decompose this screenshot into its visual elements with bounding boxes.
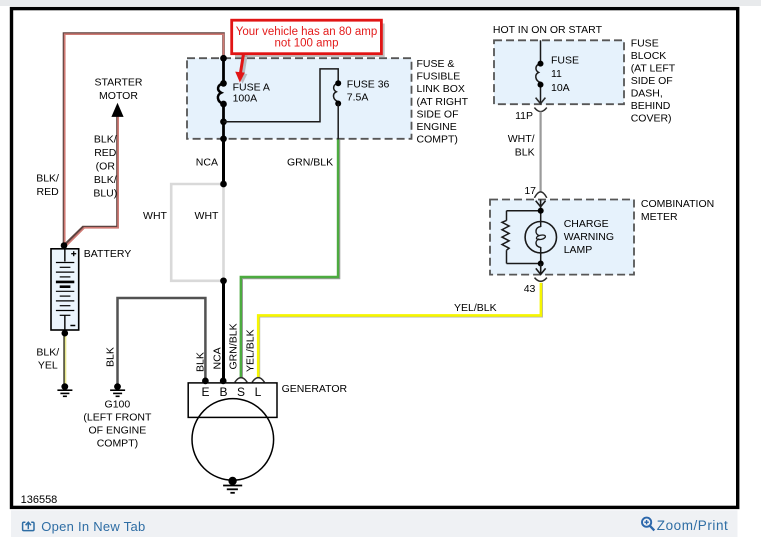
svg-text:BEHIND: BEHIND bbox=[631, 100, 671, 112]
junction dot fuse36 bottom bbox=[335, 101, 341, 107]
fuse 36 bbox=[333, 83, 338, 102]
svg-text:100A: 100A bbox=[233, 93, 258, 105]
svg-text:BLK/: BLK/ bbox=[36, 346, 59, 358]
svg-text:RED: RED bbox=[94, 147, 117, 159]
ground generator bbox=[223, 477, 242, 493]
annotation arrow bbox=[235, 54, 245, 83]
annotation box bbox=[232, 20, 382, 54]
svg-text:10A: 10A bbox=[551, 82, 570, 94]
junction dot WHT bottom bbox=[220, 277, 227, 284]
connector 17 arc bbox=[534, 192, 546, 198]
arrow into meter bbox=[536, 200, 546, 211]
terminal dot B bbox=[220, 378, 227, 385]
svg-text:GRN/BLK: GRN/BLK bbox=[228, 323, 240, 369]
connector S arc bbox=[235, 378, 247, 383]
wire BLK/YEL battery to ground dark half bbox=[63, 333, 65, 385]
svg-text:FUSE &: FUSE & bbox=[417, 58, 455, 70]
svg-text:FUSE 36: FUSE 36 bbox=[347, 78, 390, 90]
top gray strip bbox=[0, 0, 761, 6]
wire WHT vertical bbox=[222, 184, 225, 281]
wire BLK/RED(OR BLK/BLU) battery to starter motor bbox=[64, 112, 118, 246]
junction dot fuse36 top bbox=[335, 80, 341, 86]
svg-text:not 100 amp: not 100 amp bbox=[275, 38, 339, 50]
svg-text:COMBINATION: COMBINATION bbox=[641, 198, 714, 210]
wire fuse36 to box edge bbox=[337, 104, 339, 140]
magnifier icon bbox=[642, 518, 654, 531]
svg-text:HOT IN ON OR START: HOT IN ON OR START bbox=[493, 24, 603, 36]
svg-text:COMPT): COMPT) bbox=[97, 437, 138, 449]
junction dot fuse11 bottom bbox=[538, 82, 544, 88]
wire NCA to generator B bbox=[222, 281, 225, 381]
svg-text:BLK/: BLK/ bbox=[94, 134, 117, 146]
wire BLK/RED battery to fuse box bbox=[64, 34, 224, 246]
svg-text:E: E bbox=[201, 385, 209, 399]
svg-text:(AT LEFT: (AT LEFT bbox=[631, 62, 676, 74]
wire WHT/BLK 11P to 17 bbox=[539, 112, 541, 192]
connector L arc bbox=[252, 378, 264, 383]
svg-text:WHT: WHT bbox=[143, 210, 167, 222]
svg-text:WHT/: WHT/ bbox=[508, 133, 535, 145]
svg-text:COMPT): COMPT) bbox=[417, 133, 458, 145]
terminal letters E B S L bbox=[201, 385, 261, 399]
svg-text:GENERATOR: GENERATOR bbox=[282, 383, 348, 395]
fuse 11 chain bbox=[536, 40, 541, 103]
arrow out of meter bbox=[536, 264, 546, 275]
svg-text:METER: METER bbox=[641, 211, 678, 223]
annotation text bbox=[236, 26, 378, 50]
svg-text:S: S bbox=[237, 385, 245, 399]
svg-text:136558: 136558 bbox=[21, 494, 58, 506]
starter motor arrow bbox=[111, 103, 123, 117]
junction dot fuse box top bbox=[220, 55, 227, 62]
svg-text:(LEFT FRONT: (LEFT FRONT bbox=[83, 411, 152, 423]
ground battery bbox=[57, 383, 72, 396]
svg-text:17: 17 bbox=[524, 185, 536, 197]
svg-text:BLK: BLK bbox=[515, 146, 535, 158]
terminal dot E bbox=[202, 378, 209, 385]
battery - terminal dot bbox=[62, 330, 69, 337]
ground G100 bbox=[110, 383, 125, 396]
svg-text:SIDE OF: SIDE OF bbox=[631, 75, 673, 87]
svg-text:(AT RIGHT: (AT RIGHT bbox=[417, 96, 469, 108]
svg-text:RED: RED bbox=[37, 186, 60, 198]
wire GRN/BLK fuse36 to generator S bbox=[241, 140, 339, 378]
svg-text:BATTERY: BATTERY bbox=[84, 248, 131, 260]
svg-text:MOTOR: MOTOR bbox=[99, 90, 138, 102]
svg-text:BLK/: BLK/ bbox=[36, 172, 59, 184]
svg-text:7.5A: 7.5A bbox=[347, 92, 369, 104]
charge warning lamp bbox=[525, 211, 556, 264]
svg-text:Open In New Tab: Open In New Tab bbox=[41, 519, 145, 534]
svg-text:DASH,: DASH, bbox=[631, 88, 663, 100]
junction dot fuse11 top bbox=[538, 61, 544, 67]
connector 43 arc bbox=[535, 278, 547, 282]
bottom toolbar bbox=[11, 510, 738, 537]
junction dot fuse A top bbox=[220, 80, 227, 87]
svg-text:YEL: YEL bbox=[38, 360, 58, 372]
svg-text:ENGINE: ENGINE bbox=[417, 121, 457, 133]
battery bbox=[51, 249, 79, 330]
svg-text:LAMP: LAMP bbox=[564, 244, 593, 256]
svg-text:SIDE OF: SIDE OF bbox=[417, 108, 459, 120]
annotation shadow bbox=[235, 24, 385, 58]
generator circle bbox=[192, 399, 274, 481]
svg-text:OF ENGINE: OF ENGINE bbox=[89, 424, 147, 436]
junction dot fuse A bottom bbox=[220, 101, 227, 108]
svg-text:BLK: BLK bbox=[195, 352, 207, 372]
svg-text:BLOCK: BLOCK bbox=[631, 50, 667, 62]
wire WHT parallel loop bbox=[171, 184, 223, 281]
svg-text:FUSIBLE: FUSIBLE bbox=[417, 71, 461, 83]
junction dot fuse36 branch bbox=[220, 118, 227, 125]
svg-text:G100: G100 bbox=[105, 398, 131, 410]
fuse & fusible link box bbox=[187, 58, 412, 139]
svg-text:YEL/BLK: YEL/BLK bbox=[454, 302, 497, 314]
svg-text:L: L bbox=[255, 385, 262, 399]
junction dot meter bottom bbox=[538, 261, 544, 267]
combination meter box bbox=[490, 200, 634, 275]
battery + terminal dot bbox=[61, 242, 68, 249]
svg-text:FUSE: FUSE bbox=[551, 55, 579, 67]
junction dot WHT top bbox=[220, 181, 227, 188]
wire fuse36 branch bbox=[224, 69, 339, 122]
connector 11P arc bbox=[534, 108, 546, 112]
svg-text:CHARGE: CHARGE bbox=[564, 218, 609, 230]
svg-text:NCA: NCA bbox=[196, 156, 218, 168]
junction dot meter top bbox=[538, 208, 544, 214]
svg-text:43: 43 bbox=[524, 283, 536, 295]
svg-text:FUSE A: FUSE A bbox=[233, 81, 270, 93]
wire BLK/YEL battery to ground yellow half bbox=[65, 333, 67, 385]
generator box bbox=[188, 383, 277, 418]
svg-text:FUSE: FUSE bbox=[631, 37, 659, 49]
fuse block box bbox=[494, 40, 624, 104]
svg-text:YEL/BLK: YEL/BLK bbox=[245, 329, 257, 372]
svg-text:B: B bbox=[219, 385, 227, 399]
svg-text:Your vehicle has an 80 amp: Your vehicle has an 80 amp bbox=[236, 26, 378, 38]
svg-text:LINK BOX: LINK BOX bbox=[417, 83, 465, 95]
svg-text:11P: 11P bbox=[515, 110, 533, 122]
svg-text:BLU): BLU) bbox=[93, 187, 117, 199]
svg-text:BLK: BLK bbox=[105, 347, 117, 367]
svg-text:NCA: NCA bbox=[212, 347, 224, 369]
svg-text:COVER): COVER) bbox=[631, 113, 672, 125]
svg-text:Zoom/Print: Zoom/Print bbox=[657, 518, 729, 533]
svg-text:11: 11 bbox=[551, 68, 562, 80]
svg-text:WHT: WHT bbox=[195, 210, 219, 222]
svg-text:BLK/: BLK/ bbox=[94, 174, 117, 186]
svg-text:WARNING: WARNING bbox=[564, 231, 614, 243]
svg-text:(OR: (OR bbox=[96, 161, 116, 173]
svg-text:STARTER: STARTER bbox=[94, 77, 142, 89]
wire BLK G100 ground branch bbox=[118, 298, 206, 384]
open in new tab icon bbox=[23, 522, 34, 530]
meter internal circuit bbox=[502, 211, 541, 264]
wire NCA fuse box to WHT junction bbox=[222, 139, 225, 184]
wire YEL/BLK meter to generator L bbox=[258, 283, 542, 377]
arrow out of fuse block bbox=[536, 98, 546, 104]
junction dot fuse box bottom bbox=[220, 135, 227, 142]
fuse A chain bbox=[218, 58, 224, 139]
annotation arrow shadow bbox=[238, 55, 248, 84]
svg-text:GRN/BLK: GRN/BLK bbox=[287, 156, 333, 168]
